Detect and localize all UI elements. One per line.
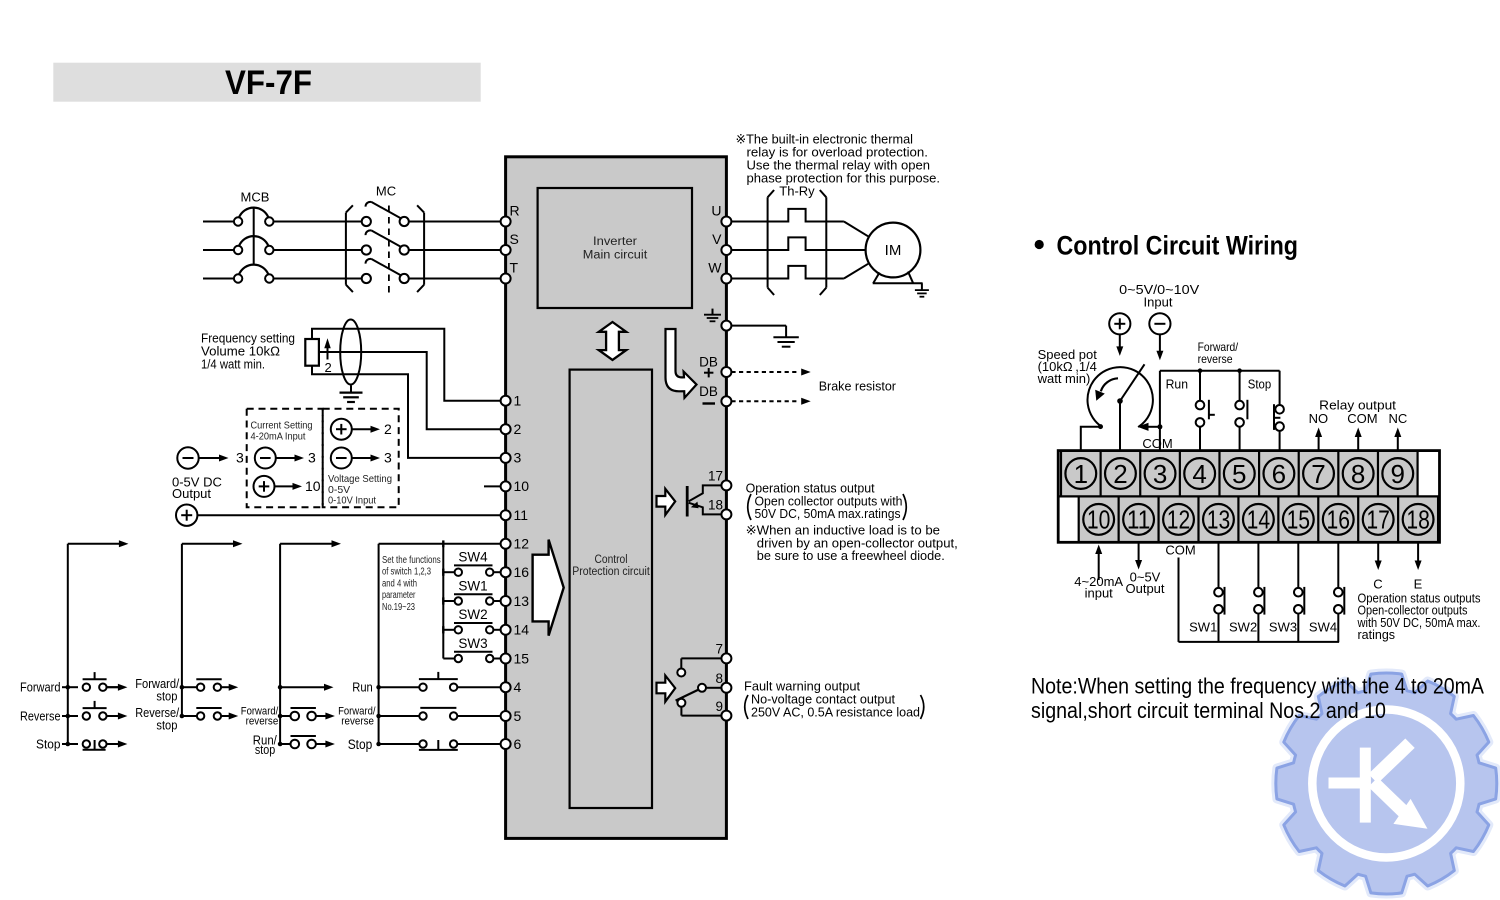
svg-text:18: 18 (708, 498, 723, 513)
svg-text:2: 2 (1113, 459, 1127, 489)
svg-text:phase protection for this purp: phase protection for this purpose. (747, 171, 941, 186)
svg-text:2: 2 (514, 421, 522, 437)
svg-text:9: 9 (1391, 459, 1405, 489)
svg-text:15: 15 (514, 650, 530, 666)
svg-text:11: 11 (514, 507, 529, 523)
svg-text:17: 17 (708, 469, 723, 484)
svg-text:17: 17 (1366, 505, 1390, 535)
svg-text:IM: IM (885, 242, 902, 259)
svg-text:8: 8 (715, 671, 723, 686)
svg-text:parameter: parameter (382, 590, 416, 601)
svg-text:SW3: SW3 (458, 636, 487, 651)
svg-text:W: W (708, 260, 722, 276)
svg-text:6: 6 (1272, 459, 1286, 489)
svg-text:Forward: Forward (20, 680, 61, 695)
svg-text:COM: COM (1347, 411, 1377, 426)
svg-text:Stop: Stop (348, 737, 373, 752)
svg-text:Control Circuit Wiring: Control Circuit Wiring (1057, 231, 1299, 261)
svg-text:3: 3 (384, 450, 392, 466)
svg-text:Output: Output (172, 486, 211, 501)
svg-text:Protection circuit: Protection circuit (572, 566, 650, 578)
svg-text:Stop: Stop (1248, 377, 1271, 392)
svg-text:16: 16 (514, 564, 530, 580)
svg-text:9: 9 (715, 699, 723, 714)
svg-text:12: 12 (1167, 505, 1191, 535)
svg-text:Set the functions: Set the functions (382, 555, 441, 566)
svg-text:reverse: reverse (1198, 352, 1233, 366)
svg-text:V: V (712, 231, 722, 247)
svg-text:Run: Run (1166, 377, 1188, 392)
svg-text:signal,short circuit terminal: signal,short circuit terminal Nos.2 and … (1031, 698, 1386, 723)
svg-text:5: 5 (1232, 459, 1246, 489)
svg-text:4: 4 (514, 679, 522, 695)
svg-text:of switch 1,2,3: of switch 1,2,3 (382, 567, 431, 578)
svg-text:NO: NO (1309, 411, 1329, 426)
svg-text:stop: stop (156, 689, 177, 704)
svg-text:input: input (1085, 586, 1114, 601)
svg-text:S: S (510, 231, 519, 247)
svg-text:stop: stop (156, 718, 177, 733)
svg-text:Inverter: Inverter (593, 236, 637, 248)
svg-text:Stop: Stop (36, 737, 61, 752)
svg-text:250V AC, 0.5A resistance load: 250V AC, 0.5A resistance load (751, 704, 920, 719)
svg-text:2: 2 (384, 421, 392, 437)
svg-text:Main circuit: Main circuit (583, 250, 648, 262)
svg-text:T: T (510, 260, 519, 276)
svg-text:14: 14 (1247, 505, 1271, 535)
svg-text:stop: stop (255, 743, 275, 757)
svg-text:SW1: SW1 (458, 578, 487, 593)
svg-text:7: 7 (715, 642, 723, 657)
svg-text:Input: Input (1144, 295, 1173, 310)
svg-text:reverse: reverse (246, 715, 279, 727)
svg-text:15: 15 (1287, 505, 1311, 535)
svg-text:and 4 with: and 4 with (382, 578, 417, 589)
svg-text:3: 3 (1153, 459, 1167, 489)
svg-text:be sure to use a freewheel dio: be sure to use a freewheel diode. (757, 548, 945, 563)
svg-text:E: E (1414, 577, 1423, 592)
svg-text:50V DC, 50mA max.ratings: 50V DC, 50mA max.ratings (755, 506, 901, 521)
svg-text:Th-Ry: Th-Ry (779, 184, 815, 199)
svg-text:VF-7F: VF-7F (225, 64, 312, 102)
svg-text:SW3: SW3 (1269, 620, 1297, 635)
svg-text:MCB: MCB (241, 190, 270, 205)
svg-text:1: 1 (1074, 459, 1088, 489)
svg-text:4: 4 (1192, 459, 1206, 489)
svg-text:10: 10 (305, 478, 321, 494)
svg-text:5: 5 (514, 708, 522, 724)
svg-text:18: 18 (1406, 505, 1430, 535)
svg-text:Brake resistor: Brake resistor (819, 379, 897, 394)
svg-text:U: U (711, 203, 721, 219)
svg-text:DB: DB (699, 384, 718, 399)
svg-text:DB: DB (699, 355, 718, 370)
svg-text:13: 13 (514, 593, 530, 609)
svg-text:ratings: ratings (1358, 628, 1396, 642)
svg-text:watt min): watt min) (1037, 371, 1091, 386)
svg-text:Control: Control (595, 554, 628, 566)
svg-text:4-20mA Input: 4-20mA Input (251, 430, 306, 442)
svg-text:8: 8 (1351, 459, 1365, 489)
svg-text:Run: Run (352, 680, 373, 695)
svg-text:C: C (1373, 577, 1382, 592)
svg-text:reverse: reverse (341, 715, 374, 727)
svg-text:12: 12 (514, 536, 530, 552)
svg-text:2: 2 (325, 360, 332, 375)
svg-text:SW2: SW2 (458, 607, 487, 622)
svg-text:11: 11 (1127, 505, 1151, 535)
svg-text:SW2: SW2 (1229, 620, 1257, 635)
svg-text:R: R (510, 203, 520, 219)
svg-text:NC: NC (1389, 411, 1408, 426)
svg-text:3: 3 (308, 450, 316, 466)
svg-text:SW4: SW4 (1309, 620, 1337, 635)
svg-text:13: 13 (1207, 505, 1231, 535)
svg-text:14: 14 (514, 622, 530, 638)
svg-text:SW4: SW4 (458, 550, 488, 565)
svg-text:Output: Output (1125, 581, 1164, 596)
svg-text:6: 6 (514, 736, 522, 752)
svg-text:MC: MC (376, 184, 396, 199)
svg-text:SW1: SW1 (1189, 620, 1217, 635)
svg-text:COM: COM (1142, 436, 1172, 451)
svg-text:3: 3 (514, 450, 522, 466)
svg-text:COM: COM (1165, 543, 1195, 558)
svg-text:Reverse: Reverse (20, 709, 61, 724)
svg-text:16: 16 (1326, 505, 1350, 535)
svg-text:1: 1 (514, 393, 522, 409)
svg-text:3: 3 (236, 450, 244, 466)
svg-text:10: 10 (1087, 505, 1111, 535)
svg-text:7: 7 (1311, 459, 1325, 489)
svg-text:1/4 watt min.: 1/4 watt min. (201, 356, 265, 371)
svg-text:10: 10 (514, 478, 530, 494)
svg-text:Note:When setting the frequenc: Note:When setting the frequency with the… (1031, 674, 1484, 699)
svg-text:No.19~23: No.19~23 (382, 602, 415, 613)
svg-text:0-10V Input: 0-10V Input (328, 495, 376, 507)
